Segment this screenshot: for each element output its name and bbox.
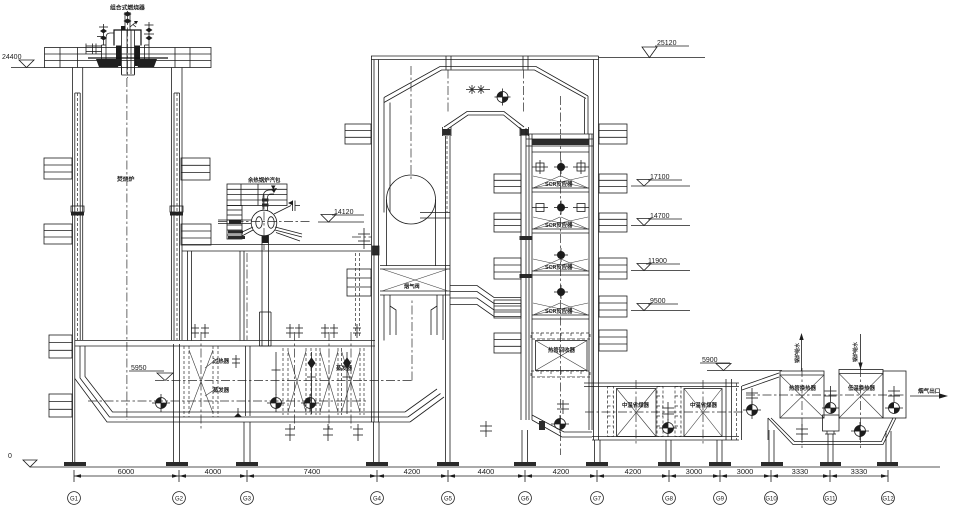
svg-text:热管换热器: 热管换热器 — [789, 384, 817, 392]
elevation 25120 — [599, 40, 706, 58]
column G11 — [828, 434, 833, 462]
superheater module in duct — [184, 332, 230, 430]
svg-text:4200: 4200 — [553, 467, 570, 476]
pipe with up arrow — [801, 336, 803, 371]
SCR module 4 — [533, 285, 588, 315]
svg-text:4200: 4200 — [404, 467, 421, 476]
duct hanger bolts top — [191, 324, 361, 338]
top bolt symbols — [466, 89, 490, 91]
svg-text:烟气阀: 烟气阀 — [404, 282, 420, 290]
svg-text:G5: G5 — [444, 497, 453, 503]
top beam — [532, 139, 589, 145]
elevation 17100 — [631, 174, 690, 186]
column G10 — [769, 430, 774, 462]
lower-left nozzles — [240, 227, 253, 233]
duct bolts bottom — [232, 355, 363, 441]
left wall — [72, 68, 74, 463]
svg-text:蒸发器: 蒸发器 — [335, 364, 353, 372]
column G3 — [244, 422, 250, 462]
elevation marker 24400 — [2, 54, 45, 68]
svg-text:4200: 4200 — [625, 467, 642, 476]
economizer box 2 — [684, 389, 722, 437]
left pipe w/ flanges — [93, 45, 102, 47]
svg-text:3000: 3000 — [686, 467, 703, 476]
svg-text:4000: 4000 — [205, 467, 222, 476]
induced fan circle — [387, 175, 436, 266]
svg-text:G11: G11 — [825, 497, 837, 503]
top pipe with elbow — [262, 198, 264, 211]
svg-text:SCR反应器: SCR反应器 — [545, 180, 573, 188]
SCR tower bottom hopper — [532, 400, 592, 437]
svg-text:G2: G2 — [175, 497, 184, 503]
burner frame — [114, 30, 141, 46]
bottom hopper under boxes — [768, 418, 896, 445]
svg-text:3000: 3000 — [737, 467, 754, 476]
elbow — [106, 33, 114, 45]
module separators — [532, 152, 589, 319]
downcomer pipe — [261, 236, 263, 347]
under-box symbols — [796, 424, 808, 440]
symbols — [662, 402, 674, 420]
platform between tower and center structure — [182, 245, 371, 417]
duct horizontal centerline — [88, 400, 368, 402]
svg-text:6000: 6000 — [118, 467, 135, 476]
svg-text:烟气出口: 烟气出口 — [918, 387, 941, 395]
leg below valve — [383, 295, 385, 341]
column G12 — [886, 431, 891, 462]
svg-text:过热器: 过热器 — [213, 357, 230, 365]
connector box between A and B — [822, 386, 839, 434]
heat pipe recovery unit — [531, 333, 590, 377]
center stem with valves — [124, 12, 126, 30]
SCR wall joints — [520, 236, 533, 278]
leg platform — [420, 212, 450, 214]
inner U outline — [444, 112, 524, 128]
SCR module 1 — [532, 160, 589, 188]
combined burner — [86, 4, 168, 79]
tube black walls — [116, 46, 121, 67]
left stem — [103, 24, 105, 45]
elevation 14700 — [631, 213, 690, 226]
svg-text:SCR反应器: SCR反应器 — [545, 221, 573, 229]
column G6 — [522, 430, 528, 462]
lugs on center-left wall — [345, 124, 379, 296]
elevation 9500 — [631, 298, 690, 311]
flange strips — [608, 387, 682, 437]
svg-text:G9: G9 — [716, 497, 725, 503]
svg-text:7400: 7400 — [304, 467, 321, 476]
bottom-left horizontal duct — [75, 300, 444, 422]
dimension line — [74, 467, 888, 482]
flue gas outlet arrow — [746, 387, 948, 399]
column G9 — [717, 440, 722, 462]
stair bypass duct — [450, 286, 521, 317]
svg-text:SCR反应器: SCR反应器 — [545, 263, 573, 271]
duct right end chamfer up — [405, 389, 437, 412]
svg-text:G6: G6 — [521, 497, 530, 503]
svg-text:中温省煤器: 中温省煤器 — [690, 401, 718, 409]
column G7 — [595, 440, 601, 462]
column base plates — [64, 462, 898, 466]
base plates — [88, 57, 168, 59]
svg-text:0: 0 — [8, 453, 12, 460]
small posts on top — [445, 56, 447, 70]
ground line — [30, 466, 940, 468]
svg-text:G3: G3 — [243, 497, 252, 503]
svg-text:3330: 3330 — [851, 467, 868, 476]
SCR module 2 — [532, 201, 589, 230]
high temp heat exchanger box A — [780, 333, 824, 448]
column G8 — [666, 440, 671, 462]
left flange column — [101, 45, 103, 66]
right stem — [148, 22, 150, 45]
lower-right nozzles — [275, 227, 302, 234]
flue gas valve box — [380, 266, 450, 341]
svg-text:G1: G1 — [70, 497, 79, 503]
SCR reactor tower walls — [521, 128, 593, 455]
elevation 11900 — [631, 258, 690, 271]
flange blocks — [443, 129, 451, 136]
right wall — [171, 68, 173, 341]
svg-text:锅炉给水: 锅炉给水 — [794, 342, 801, 364]
center structure outer frame — [371, 56, 599, 440]
bolt under mid gap — [480, 421, 492, 437]
striped economizer panel — [227, 184, 287, 206]
svg-text:锅炉给水: 锅炉给水 — [852, 341, 859, 363]
svg-text:焚烧炉: 焚烧炉 — [116, 175, 135, 183]
svg-text:热管回收器: 热管回收器 — [548, 346, 576, 354]
outlet box — [883, 371, 906, 418]
grid circles — [68, 492, 895, 505]
left leg right wall dashed center — [446, 136, 448, 212]
svg-text:组合式燃烧器: 组合式燃烧器 — [110, 4, 145, 12]
svg-text:G12: G12 — [882, 497, 894, 503]
SCR module 3 — [533, 248, 588, 271]
steam drum — [218, 176, 312, 346]
incinerator top platform — [45, 48, 212, 68]
svg-text:余热锅炉汽包: 余热锅炉汽包 — [247, 176, 281, 184]
svg-text:低温换热器: 低温换热器 — [847, 384, 876, 392]
soot lances with diamonds — [272, 352, 352, 414]
columns and bases — [64, 136, 898, 466]
drum circle — [251, 210, 277, 236]
center line — [126, 78, 128, 420]
svg-text:蒸发器: 蒸发器 — [212, 386, 230, 394]
soot blowers in duct — [152, 394, 319, 417]
SCR lugs left — [494, 174, 521, 353]
grid dashdot lines — [447, 70, 449, 113]
elevation 5900 — [700, 357, 782, 371]
svg-text:3330: 3330 — [792, 467, 809, 476]
svg-text:G8: G8 — [665, 497, 674, 503]
svg-text:G10: G10 — [765, 497, 777, 503]
narrow ladder below — [227, 206, 242, 240]
svg-text:SCR反应器: SCR反应器 — [545, 307, 573, 315]
svg-text:G4: G4 — [373, 497, 382, 503]
elevation 14120 — [318, 209, 364, 222]
evaporator modules in duct — [272, 332, 365, 430]
svg-text:G7: G7 — [593, 497, 602, 503]
elevation 0 marker — [8, 453, 37, 467]
rising connector duct — [726, 373, 779, 440]
pipe with down arrow — [860, 334, 862, 370]
tower lugs left upper — [44, 158, 211, 417]
economizer duct — [584, 380, 761, 445]
SCR lugs right — [599, 124, 627, 351]
center duct chamfered top outline — [384, 66, 588, 218]
column G2 — [174, 344, 180, 462]
low temp heat exchanger box B — [839, 334, 883, 448]
incinerator furnace tower — [71, 68, 183, 463]
svg-text:4400: 4400 — [478, 467, 495, 476]
economizer box 1 — [617, 389, 657, 437]
wall joints — [71, 206, 84, 212]
column G5 — [446, 136, 451, 462]
right diagonal nozzle with hammer — [274, 206, 291, 215]
column G4 — [374, 422, 380, 462]
left pipe with valve bar — [229, 220, 241, 224]
right flange column — [144, 45, 146, 66]
